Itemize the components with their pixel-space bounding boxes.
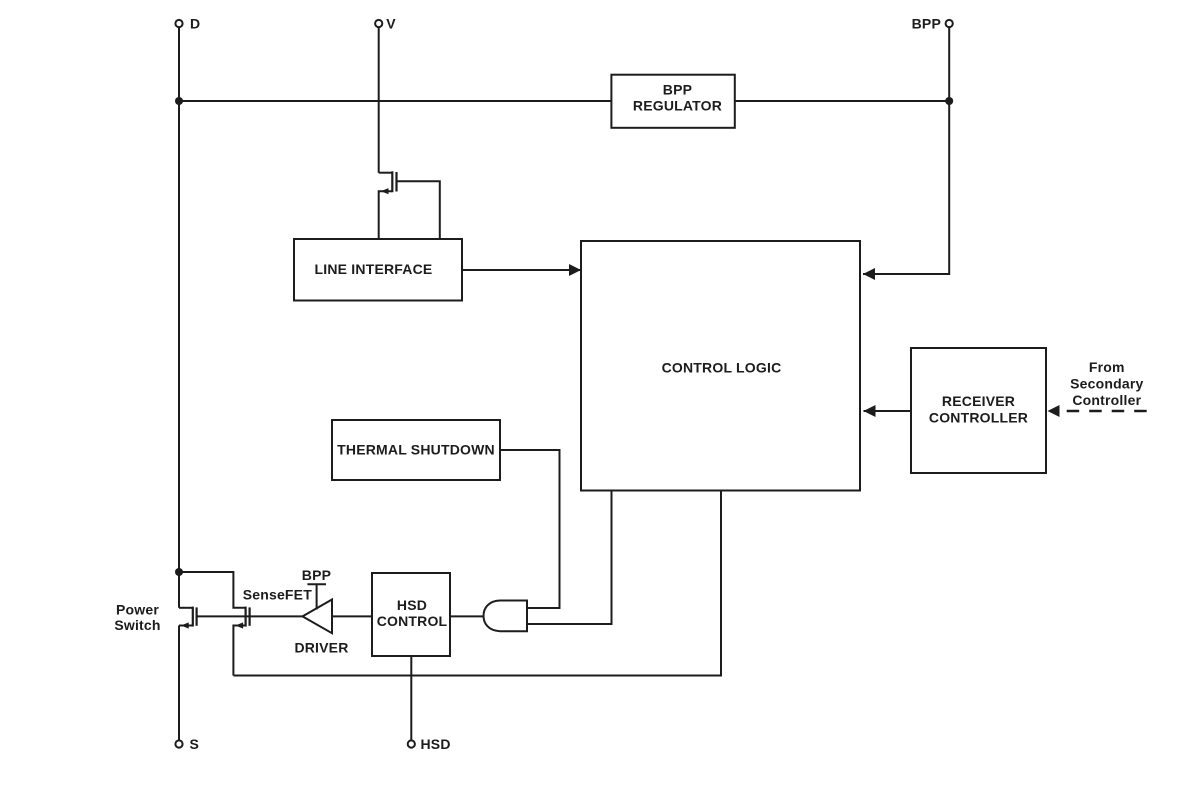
svg-text:BPP: BPP (912, 16, 941, 32)
arrowhead into control logic left (569, 264, 581, 276)
terminal D (175, 20, 182, 27)
svg-text:CONTROLLER: CONTROLLER (929, 410, 1028, 426)
dashed arrow from secondary controller (1058, 410, 1147, 412)
wire D vertical lower to S (178, 626, 180, 741)
svg-text:SenseFET: SenseFET (243, 587, 313, 603)
box RECEIVER CONTROLLER (911, 348, 1046, 473)
wire D vertical upper (178, 27, 180, 608)
wire V vertical (378, 27, 380, 172)
svg-text:HSD: HSD (421, 736, 451, 752)
box HSD CONTROL (372, 573, 450, 656)
svg-text:V: V (386, 16, 396, 32)
svg-text:REGULATOR: REGULATOR (633, 97, 722, 113)
svg-text:CONTROL: CONTROL (377, 613, 448, 629)
terminal HSD (408, 740, 415, 747)
wire BPP tap to driver (307, 584, 326, 609)
wire BPP vertical and into control logic (863, 27, 949, 274)
wire main horizontal left of BPP regulator (179, 100, 611, 102)
wire main horizontal right of BPP regulator (735, 100, 949, 102)
terminal BPP (946, 20, 953, 27)
arrowhead receiver into control logic right (864, 405, 876, 417)
box THERMAL SHUTDOWN (332, 420, 500, 480)
terminal V (375, 20, 382, 27)
svg-text:Secondary: Secondary (1070, 376, 1143, 392)
wire control logic to AND gate bottom input (527, 491, 612, 625)
wire HSD control to HSD terminal (410, 656, 412, 740)
svg-text:BPP: BPP (663, 81, 692, 97)
svg-text:From: From (1089, 359, 1125, 375)
arrowhead dashed into receiver controller (1048, 405, 1060, 417)
junction dot D rail (175, 97, 183, 105)
transistor M1 internal regulator FET (379, 171, 440, 239)
junction dot D to sensefet (175, 568, 183, 576)
wire control logic to bottom rail (233, 491, 721, 676)
svg-text:Controller: Controller (1072, 392, 1141, 408)
box CONTROL LOGIC (581, 241, 860, 491)
svg-text:RECEIVER: RECEIVER (942, 393, 1015, 409)
transistor power switch FET (179, 607, 197, 629)
svg-text:HSD: HSD (397, 597, 427, 613)
svg-text:THERMAL SHUTDOWN: THERMAL SHUTDOWN (337, 442, 495, 458)
svg-text:CONTROL LOGIC: CONTROL LOGIC (662, 360, 782, 376)
svg-text:D: D (190, 16, 200, 32)
wire receiver controller to control logic (864, 410, 912, 412)
transistor SenseFET (235, 607, 249, 629)
svg-text:BPP: BPP (302, 567, 331, 583)
svg-text:LINE INTERFACE: LINE INTERFACE (315, 261, 433, 277)
wire SenseFET source down to rail (233, 626, 245, 676)
svg-text:Power: Power (116, 602, 159, 618)
wire driver input from HSD control (332, 615, 372, 617)
wire junction D to SenseFET drain (179, 572, 246, 608)
wire thermal shutdown to AND gate top input (500, 450, 560, 608)
arrowhead BPP into control logic right (863, 268, 875, 280)
driver buffer triangle (303, 600, 333, 634)
terminal S (175, 740, 182, 747)
wire HSD control to AND gate output (450, 615, 484, 617)
wire line interface to control logic (462, 269, 581, 271)
box BPP REGULATOR (611, 75, 734, 128)
svg-text:DRIVER: DRIVER (294, 640, 348, 656)
wire gate line power switch to driver (197, 615, 303, 617)
svg-text:S: S (190, 736, 200, 752)
svg-text:Switch: Switch (114, 617, 160, 633)
junction dot BPP rail (945, 97, 953, 105)
AND gate (mirrored, pointing left) (484, 601, 528, 632)
box LINE INTERFACE (294, 239, 462, 301)
